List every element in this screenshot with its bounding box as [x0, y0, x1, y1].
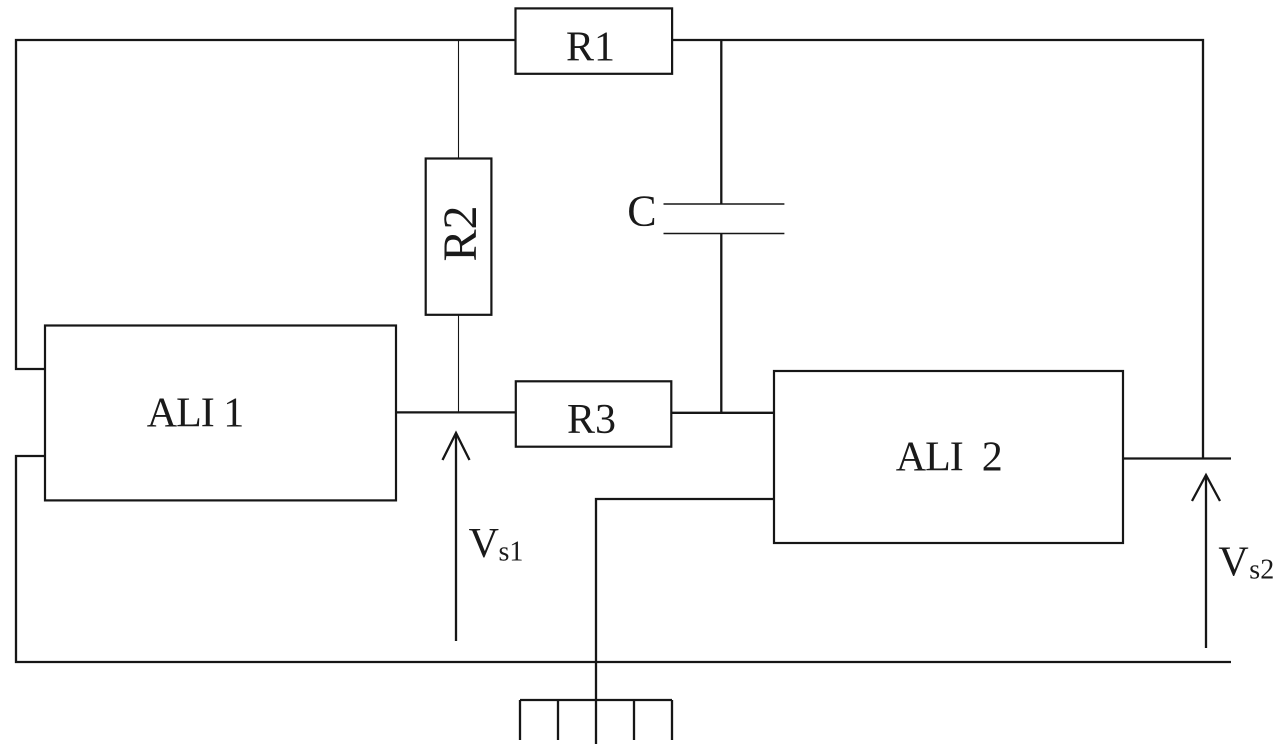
svg-text:s2: s2: [1249, 555, 1274, 586]
svg-text:ALI 2: ALI 2: [896, 434, 1002, 480]
svg-text:R1: R1: [566, 24, 615, 70]
svg-text:V: V: [469, 521, 499, 567]
svg-text:C: C: [627, 187, 656, 236]
svg-text:R3: R3: [567, 397, 616, 443]
svg-text:ALI 1: ALI 1: [147, 391, 243, 437]
svg-text:R2: R2: [434, 205, 487, 261]
svg-text:s1: s1: [499, 537, 524, 568]
svg-text:V: V: [1218, 540, 1248, 586]
